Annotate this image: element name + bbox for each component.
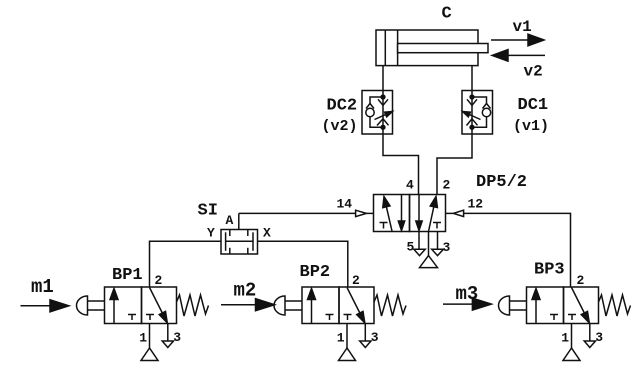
wire DC2 to DP5/2 port 4	[383, 134, 419, 195]
DP5/2 right chamber arrow down	[418, 195, 420, 222]
DP5/2 right chamber T block	[433, 222, 441, 224]
flow control valve DC2	[362, 91, 393, 135]
manual arrow m1	[21, 305, 51, 307]
BP1 right chamber arrow down-right	[150, 288, 163, 313]
svg-text:BP2: BP2	[300, 263, 331, 282]
svg-text:(v2): (v2)	[322, 118, 358, 135]
wire SI port Y to BP1	[150, 241, 222, 287]
BP2 right chamber arrow down-right	[347, 288, 360, 313]
manual arrow m2	[221, 304, 256, 306]
svg-text:DC1: DC1	[518, 96, 549, 115]
svg-text:(v1): (v1)	[513, 118, 549, 135]
BP3 port 1 supply source	[571, 324, 573, 349]
pilot line 12 with triangle	[446, 212, 454, 214]
valve BP2 body right chamber	[339, 287, 374, 324]
svg-text:3: 3	[595, 330, 603, 345]
pilot line 14 with triangle	[239, 212, 356, 214]
svg-text:v1: v1	[513, 18, 532, 36]
cylinder C body	[376, 30, 478, 66]
BP2 left chamber arrow up	[311, 298, 313, 324]
svg-text:A: A	[226, 213, 234, 228]
arrow v1	[491, 39, 529, 41]
svg-text:3: 3	[173, 330, 181, 345]
BP1 left chamber arrow up	[113, 298, 115, 324]
cylinder C piston	[384, 30, 386, 66]
valve BP1 body left chamber	[105, 287, 142, 324]
svg-text:2: 2	[155, 273, 163, 288]
manual arrow m3	[443, 303, 473, 305]
BP1 T blocks	[128, 314, 136, 316]
SI internals	[225, 232, 227, 251]
svg-text:X: X	[263, 226, 271, 241]
svg-text:m2: m2	[234, 280, 257, 302]
wire SI port X to BP2	[258, 241, 348, 287]
svg-text:4: 4	[406, 178, 414, 193]
valve BP1 body right chamber	[142, 287, 177, 324]
valve DP5/2 body left chamber	[374, 195, 410, 232]
svg-text:12: 12	[468, 197, 484, 212]
svg-text:3: 3	[443, 240, 451, 255]
DP5/2 left chamber arrow up-left	[386, 207, 392, 231]
BP1 push button	[77, 296, 88, 315]
BP3 right chamber arrow down-right	[572, 288, 585, 313]
valve BP2 body left chamber	[302, 287, 339, 324]
svg-text:5: 5	[407, 240, 415, 255]
svg-text:m1: m1	[31, 276, 54, 298]
BP1 port 3 exhaust	[167, 324, 169, 342]
BP1 spring	[177, 295, 209, 316]
svg-text:3: 3	[371, 330, 379, 345]
BP2 spring	[374, 295, 406, 316]
BP1 port 1 supply source	[149, 324, 151, 349]
flow control valve DC1	[462, 91, 493, 135]
svg-text:C: C	[442, 5, 452, 24]
svg-text:BP3: BP3	[534, 261, 565, 280]
BP3 T blocks	[550, 314, 558, 316]
svg-text:Y: Y	[207, 226, 215, 241]
wire DC1 to DP5/2 port 2	[437, 134, 472, 195]
DP5/2 left chamber T block	[380, 222, 388, 224]
cylinder C piston rod	[398, 44, 488, 53]
svg-text:BP1: BP1	[112, 266, 143, 285]
DP5/2 left chamber arrow down	[401, 195, 403, 222]
BP3 port 3 exhaust	[589, 324, 591, 342]
wire cylinder port B to DC1	[471, 66, 473, 91]
svg-text:SI: SI	[198, 202, 218, 221]
BP3 spring	[599, 295, 631, 316]
wire SI port A to pilot 14	[238, 213, 240, 229]
svg-text:DC2: DC2	[327, 97, 358, 116]
BP2 port 3 exhaust	[364, 324, 366, 342]
arrow v2	[507, 54, 545, 56]
svg-text:2: 2	[443, 178, 451, 193]
svg-text:v2: v2	[524, 63, 543, 81]
DP5/2 right chamber arrow up-right	[429, 207, 434, 232]
BP2 T blocks	[326, 314, 334, 316]
BP3 left chamber arrow up	[535, 298, 537, 324]
svg-text:2: 2	[577, 273, 585, 288]
DP5/2 port 5 exhaust	[418, 232, 420, 250]
svg-text:2: 2	[352, 273, 360, 288]
svg-text:1: 1	[337, 331, 345, 346]
shuttle valve SI body	[221, 230, 258, 255]
BP2 port 1 supply source	[346, 324, 348, 349]
svg-text:14: 14	[337, 197, 353, 212]
DP5/2 port 3 exhaust	[437, 232, 439, 250]
valve DP5/2 body right chamber	[410, 195, 446, 232]
svg-text:1: 1	[561, 331, 569, 346]
BP3 push button	[499, 296, 510, 315]
DP5/2 port 1 supply source	[428, 232, 430, 256]
valve BP3 body right chamber	[564, 287, 599, 324]
valve BP3 body left chamber	[527, 287, 564, 324]
svg-text:DP5/2: DP5/2	[476, 173, 527, 192]
BP2 push button	[274, 296, 285, 315]
wire cylinder port A to DC2	[382, 66, 384, 91]
svg-text:1: 1	[139, 331, 147, 346]
